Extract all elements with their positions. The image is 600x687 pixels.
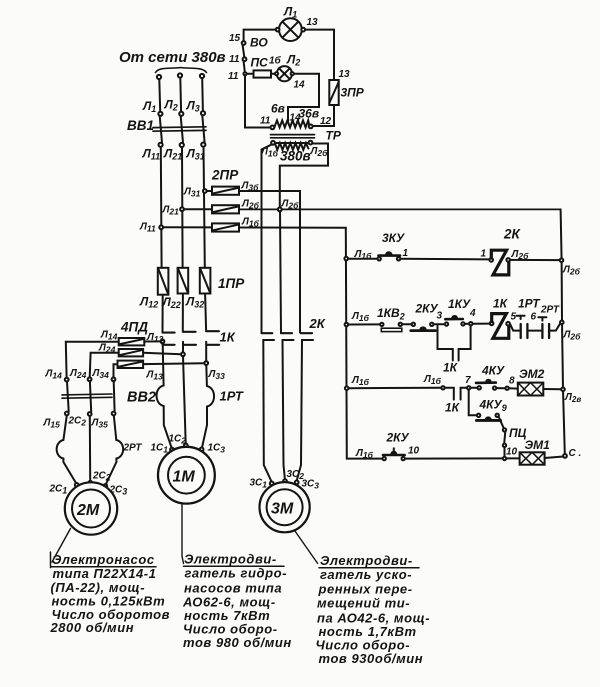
svg-text:1РТ: 1РТ bbox=[220, 389, 244, 404]
wire to 1C1 bbox=[164, 406, 172, 448]
wire to 1C3 bbox=[202, 407, 207, 448]
wire L11 to fuse 2PR-1 bbox=[163, 226, 212, 228]
svg-text:Электронасос: Электронасос bbox=[52, 552, 155, 567]
fuse 1PR-2 bbox=[178, 268, 189, 294]
switch VO bbox=[242, 41, 246, 45]
wire 4PD-2 right to tap bbox=[143, 353, 181, 355]
svg-text:1М: 1М bbox=[173, 469, 196, 486]
wire L1b transformer lead down bbox=[262, 144, 273, 332]
button 2KU row4 bbox=[383, 448, 405, 460]
wire 4PD-1 right to tap bbox=[144, 340, 160, 342]
svg-text:Л15: Л15 bbox=[43, 418, 61, 430]
terminal 3C3 bbox=[295, 481, 299, 485]
node L3 top terminal bbox=[200, 74, 204, 78]
svg-text:Л21: Л21 bbox=[162, 205, 180, 217]
fuse 1PR-1 bbox=[158, 268, 169, 295]
wire 3KU to coil 2K bbox=[400, 258, 489, 261]
svg-text:4ПД: 4ПД bbox=[120, 320, 148, 335]
svg-text:1С3: 1С3 bbox=[208, 443, 226, 455]
wire BB2-3 down bbox=[114, 415, 117, 440]
thermal contact 2RT bbox=[538, 317, 560, 338]
svg-text:ВВ1: ВВ1 bbox=[127, 118, 154, 133]
button 3KU bbox=[378, 251, 401, 260]
junction node L2b redraw bbox=[278, 208, 282, 212]
1K lower left: tap node, foot, wire down bbox=[161, 340, 165, 344]
svg-text:Л2б: Л2б bbox=[563, 330, 582, 342]
wire 4PD-2 left bbox=[90, 353, 119, 378]
terminal circle row3 bbox=[441, 386, 444, 389]
wire L32 fuse to 1K bbox=[205, 294, 206, 331]
svg-text:12: 12 bbox=[320, 116, 332, 127]
svg-text:От сети 380в: От сети 380в bbox=[119, 49, 226, 66]
fuse 4PD-3 bbox=[118, 361, 144, 368]
svg-text:мещений ти-: мещений ти- bbox=[317, 596, 410, 611]
wire fuse to lamp L2 bbox=[271, 73, 275, 75]
primary winding bbox=[275, 143, 309, 150]
wire phase L3 drop bbox=[201, 78, 204, 111]
terminal 11 bbox=[271, 126, 275, 130]
fuse 1PR-3 bbox=[200, 268, 211, 294]
wire 4PD-1 left bbox=[66, 342, 119, 378]
wire PTs to node10 bbox=[504, 447, 506, 457]
switch BB2 blade 2 bbox=[90, 381, 91, 412]
terminal 3C1 bbox=[270, 482, 274, 486]
svg-text:Л1б: Л1б bbox=[355, 448, 374, 460]
wire BB2-2 down to 2C2 bbox=[89, 416, 91, 481]
svg-text:36в: 36в bbox=[299, 107, 320, 121]
svg-text:1К: 1К bbox=[445, 401, 461, 415]
wire 4PD-3 right to tap bbox=[143, 362, 204, 365]
leader 2M to text bbox=[52, 529, 71, 563]
svg-text:2К: 2К bbox=[503, 227, 522, 242]
thermal element 2RT left bulge bbox=[57, 440, 64, 459]
terminal 2C2 bbox=[88, 481, 92, 485]
wire phase L1: BB1 to fuse 1PR bbox=[160, 147, 163, 268]
wire PS to fuse 1b bbox=[247, 73, 254, 75]
svg-text:6в: 6в bbox=[271, 102, 285, 116]
node L31 bbox=[201, 143, 205, 147]
svg-text:Л2б: Л2б bbox=[281, 199, 300, 211]
wire row L3b to corner bbox=[239, 191, 300, 333]
node right rail row3 bbox=[561, 388, 565, 392]
wire row L1b to control rail corner bbox=[239, 228, 382, 459]
svg-text:3ПР: 3ПР bbox=[341, 86, 365, 100]
svg-text:Л13: Л13 bbox=[146, 370, 164, 382]
svg-text:3С3: 3С3 bbox=[302, 479, 320, 491]
svg-text:тов 980 об/мин: тов 980 об/мин bbox=[183, 635, 292, 650]
thermal contact 1RT bbox=[510, 316, 542, 338]
svg-text:8: 8 bbox=[509, 376, 515, 387]
svg-text:2РТ: 2РТ bbox=[540, 305, 560, 316]
svg-text:3М: 3М bbox=[271, 501, 294, 518]
fuse 2PR-2 (L2b) bbox=[212, 205, 239, 213]
button 1KU bbox=[445, 315, 465, 326]
underline block 2 bbox=[184, 565, 285, 567]
switch BB2 bar bbox=[62, 393, 112, 396]
terminal 2C3 bbox=[103, 484, 107, 488]
wire lamp L1 left to VO bbox=[244, 30, 276, 41]
svg-text:1: 1 bbox=[481, 249, 487, 260]
svg-text:Л33: Л33 bbox=[208, 369, 226, 381]
node L21 bbox=[180, 143, 184, 147]
coil 2K bbox=[489, 250, 510, 275]
switch PS bbox=[244, 61, 245, 72]
row2 node at left rail bbox=[345, 323, 349, 327]
1K lower right: foot, tap node, wire down bbox=[206, 344, 219, 346]
node 7 bbox=[467, 386, 470, 389]
fuse 3PR bbox=[329, 80, 338, 105]
wire to 2C1 bbox=[63, 459, 76, 484]
svg-text:2С2: 2С2 bbox=[68, 416, 87, 428]
svg-text:типа П22Х14-1: типа П22Х14-1 bbox=[53, 566, 157, 581]
wire L31 to fuse 2PR-3 bbox=[207, 190, 212, 192]
foot of 2K contact upper right bbox=[301, 332, 312, 334]
svg-text:2К: 2К bbox=[309, 316, 326, 331]
motor 2M bbox=[65, 482, 117, 534]
svg-text:4: 4 bbox=[469, 308, 476, 319]
svg-text:2С2: 2С2 bbox=[92, 471, 111, 483]
switch BB1 blade 1 bbox=[160, 116, 162, 143]
wire 4KU9 to PTs bbox=[499, 417, 504, 429]
secondary winding bbox=[274, 120, 309, 127]
svg-text:11: 11 bbox=[260, 116, 271, 127]
svg-text:3С1: 3С1 bbox=[250, 478, 268, 490]
node L3 at BB1 bbox=[201, 111, 205, 115]
contact PTs bbox=[503, 428, 506, 447]
wire L21 to fuse 2PR-2 bbox=[184, 208, 212, 210]
row1 node at left rail bbox=[344, 257, 348, 261]
foot 1K upper right bbox=[206, 330, 219, 332]
svg-text:2КУ: 2КУ bbox=[386, 431, 410, 445]
svg-text:1К: 1К bbox=[220, 330, 236, 345]
coil 1K bbox=[490, 314, 510, 339]
svg-text:2РТ: 2РТ bbox=[123, 443, 143, 454]
wire 1KU to node4 bbox=[465, 323, 469, 325]
thermal element 2RT right bulge bbox=[116, 440, 123, 459]
node 10 bbox=[503, 457, 506, 460]
wire rail to terminal bbox=[349, 387, 442, 389]
contact 1K row3 (hanging break) bbox=[445, 388, 467, 400]
svg-text:2ПР: 2ПР bbox=[211, 168, 239, 183]
foot of 2K contact upper middle bbox=[281, 332, 292, 334]
wire node8 to EM2 bbox=[509, 387, 518, 389]
fuse 2PR-1 (L1b) bbox=[212, 223, 239, 231]
wire node7 down to 4KU9 bbox=[469, 390, 477, 416]
row3 node at left rail bbox=[345, 386, 349, 390]
switch BB1 blade 2 bbox=[181, 116, 183, 143]
svg-text:7: 7 bbox=[465, 375, 471, 386]
wire node4 to coil 1K bbox=[473, 323, 490, 325]
svg-text:13: 13 bbox=[307, 17, 319, 28]
wire L12 fuse to 1K bbox=[162, 295, 164, 332]
switch BB2 blade 3 bbox=[113, 381, 116, 411]
svg-text:3КУ: 3КУ bbox=[382, 231, 405, 245]
svg-text:13: 13 bbox=[339, 69, 351, 80]
wire L2b node down to 2K bbox=[280, 211, 281, 332]
svg-text:1ПР: 1ПР bbox=[218, 276, 245, 291]
svg-text:С .: С . bbox=[569, 448, 582, 459]
terminal 2C1 bbox=[75, 483, 79, 487]
text block 1: electric pump bbox=[50, 552, 171, 635]
node L11 bbox=[159, 143, 163, 147]
wire L22 fuse to 1K bbox=[182, 294, 184, 331]
svg-text:ЭМ2: ЭМ2 bbox=[519, 367, 545, 381]
wire phase L2: BB1 to fuse 1PR bbox=[181, 147, 184, 268]
switch BB2 top contacts bbox=[65, 378, 69, 382]
wire phase L3: BB1 to fuse 1PR bbox=[204, 147, 205, 268]
svg-text:гатель уско-: гатель уско- bbox=[320, 567, 412, 582]
wire phase L2 drop bbox=[179, 78, 182, 112]
motor 1M bbox=[158, 447, 215, 504]
underline block 3 bbox=[319, 567, 419, 569]
svg-text:гатель гидро-: гатель гидро- bbox=[185, 566, 287, 581]
svg-text:10: 10 bbox=[506, 447, 518, 458]
wire 2KU3 to 1KU bbox=[434, 323, 445, 325]
node 8 bbox=[505, 387, 508, 390]
svg-text:насосов типа: насосов типа bbox=[184, 581, 282, 596]
switch BB2 bottom contacts bbox=[65, 412, 69, 416]
fuse 1b bbox=[254, 70, 272, 77]
terminal 3C2 bbox=[283, 479, 287, 483]
svg-text:1КУ: 1КУ bbox=[448, 297, 471, 311]
node L11 row tap bbox=[159, 225, 163, 229]
svg-text:2800 об/мин: 2800 об/мин bbox=[50, 620, 135, 635]
wire PS node down to transformer 11 bbox=[245, 75, 270, 127]
node L2 top terminal bbox=[178, 73, 182, 77]
wire rail to button 3KU bbox=[348, 258, 377, 260]
svg-text:2М: 2М bbox=[76, 502, 100, 519]
tick block 1 bbox=[50, 552, 52, 568]
wire EM2 to right rail bbox=[543, 388, 561, 390]
svg-text:Электродви-: Электродви- bbox=[320, 553, 413, 568]
fuse 4PD-1 bbox=[119, 338, 145, 345]
svg-text:ТР: ТР bbox=[326, 129, 342, 143]
thermal element 1RT right bulge bbox=[207, 386, 214, 407]
terminal 12 bbox=[309, 125, 313, 129]
wire 2KU to EM1 bbox=[405, 457, 520, 459]
motor 3M bbox=[260, 482, 310, 532]
svg-text:Л1б: Л1б bbox=[351, 375, 370, 387]
wire lamp L1 right to fuse 3PR bbox=[305, 30, 334, 80]
svg-text:тов 930об/мин: тов 930об/мин bbox=[319, 651, 424, 666]
node right rail row2 bbox=[560, 321, 564, 325]
svg-text:Электродви-: Электродви- bbox=[184, 552, 277, 567]
svg-text:11: 11 bbox=[228, 71, 239, 82]
svg-text:ПС: ПС bbox=[251, 56, 269, 70]
holding bridge with 1K aux contact bbox=[438, 326, 453, 349]
switch BB1 blade 3 bbox=[202, 115, 204, 142]
button 4KU9 (NC) bbox=[476, 414, 500, 421]
svg-text:1б: 1б bbox=[269, 55, 282, 67]
node right rail row1 bbox=[560, 258, 564, 262]
svg-text:1К: 1К bbox=[443, 361, 459, 375]
svg-text:Л24: Л24 bbox=[69, 368, 87, 380]
text block 3: rapid traverse motor bbox=[316, 553, 431, 666]
terminal 1C3 bbox=[200, 448, 204, 452]
brace over supply bbox=[156, 68, 207, 73]
coil EM2 bbox=[518, 383, 544, 396]
svg-text:Л35: Л35 bbox=[91, 418, 109, 430]
node L31 row tap bbox=[203, 189, 207, 193]
foot 1K upper middle bbox=[183, 331, 196, 333]
1K lower middle: foot, tap node, wire down bbox=[183, 344, 196, 346]
terminal L2b bbox=[309, 141, 313, 145]
wire 4PD-3 left bbox=[114, 364, 118, 377]
coil EM1 bbox=[520, 452, 545, 464]
svg-text:11: 11 bbox=[229, 54, 240, 65]
fuse 4PD-2 bbox=[119, 349, 143, 356]
svg-text:Л14: Л14 bbox=[100, 330, 118, 342]
right rail L2b bbox=[561, 209, 565, 453]
svg-text:Л34: Л34 bbox=[92, 368, 110, 380]
node 4 bbox=[469, 322, 472, 325]
svg-text:14: 14 bbox=[294, 80, 306, 91]
svg-text:ренных пере-: ренных пере- bbox=[318, 582, 413, 597]
svg-text:1С1: 1С1 bbox=[151, 443, 169, 455]
wire BB2-1 down bbox=[63, 415, 66, 440]
fuse 2PR-3 (L3b) bbox=[212, 187, 239, 195]
svg-text:1: 1 bbox=[403, 248, 409, 259]
limit switch 1KV2 bbox=[380, 323, 402, 332]
svg-text:10: 10 bbox=[408, 446, 420, 457]
leader from 3M to text bbox=[295, 531, 318, 564]
lamp L2 bbox=[275, 66, 294, 81]
terminal 1C1 bbox=[170, 448, 174, 452]
svg-text:5: 5 bbox=[511, 312, 517, 323]
svg-text:Л14: Л14 bbox=[45, 369, 63, 381]
wire EM1 to rail end bbox=[545, 457, 564, 459]
wire L2b transformer lead down bbox=[280, 144, 328, 208]
switch BB1 bar bbox=[153, 126, 206, 129]
svg-text:4КУ: 4КУ bbox=[481, 364, 505, 378]
foot of 2K contact upper left bbox=[262, 332, 273, 334]
text block 2: hydraulic pump motor bbox=[182, 552, 292, 651]
leader 1M to text bbox=[182, 504, 184, 564]
svg-text:ВВ2: ВВ2 bbox=[127, 390, 156, 406]
svg-text:ВО: ВО bbox=[250, 36, 268, 50]
wire to 2C3 bbox=[106, 459, 116, 485]
svg-text:Л1б: Л1б bbox=[423, 374, 442, 386]
terminal 1C2 bbox=[184, 444, 188, 448]
2K lower left: foot and wire to 3M bbox=[263, 339, 274, 341]
svg-text:15: 15 bbox=[229, 33, 241, 44]
wire phase L1 drop bbox=[158, 79, 161, 112]
node L1 top terminal bbox=[157, 75, 161, 79]
node L2 at BB1 bbox=[179, 112, 183, 116]
node L1 at BB1 bbox=[158, 112, 162, 116]
core bbox=[271, 134, 315, 136]
wire coil 2K to right rail bbox=[510, 259, 560, 261]
svg-text:Л2б: Л2б bbox=[562, 265, 581, 277]
svg-text:2КУ: 2КУ bbox=[415, 302, 439, 316]
svg-text:1К: 1К bbox=[493, 297, 509, 311]
svg-text:3: 3 bbox=[437, 311, 443, 322]
svg-text:1РТ: 1РТ bbox=[518, 297, 541, 311]
wire rail to 1KV2 bbox=[348, 323, 380, 325]
underline block 1 bbox=[51, 566, 156, 568]
thermal element 1RT left bulge bbox=[157, 386, 164, 407]
svg-text:6: 6 bbox=[531, 312, 537, 323]
button 4KU bbox=[470, 379, 505, 390]
wire row L2b to right rail bbox=[239, 208, 561, 210]
button 2KU3 (NC) bbox=[411, 323, 436, 331]
svg-text:Л11: Л11 bbox=[139, 222, 156, 234]
lamp L1 bbox=[276, 18, 305, 41]
node L21 row tap bbox=[180, 207, 184, 211]
svg-text:Л2б: Л2б bbox=[310, 146, 329, 158]
svg-text:380в: 380в bbox=[280, 149, 311, 164]
2K lower right: foot and wire to 3M bbox=[302, 339, 313, 341]
svg-text:Л1б: Л1б bbox=[351, 311, 370, 323]
switch BB2 blade 1 bbox=[67, 382, 69, 412]
svg-text:Л31: Л31 bbox=[183, 187, 201, 199]
terminal L1b bbox=[271, 141, 275, 145]
transformer TR bbox=[271, 120, 315, 149]
wire lamp L2 to tap 14 bbox=[288, 74, 319, 123]
node rail end bbox=[563, 454, 567, 458]
foot 1K upper left bbox=[163, 332, 175, 334]
wire 1KV2 to 2KU3 bbox=[402, 323, 412, 325]
svg-text:2С1: 2С1 bbox=[49, 484, 68, 496]
wire 3PR to terminal 12 bbox=[313, 105, 334, 126]
2K lower middle: foot and wire to 3M bbox=[283, 339, 294, 341]
node L2b row bbox=[278, 208, 282, 212]
svg-text:ЭМ1: ЭМ1 bbox=[525, 438, 551, 452]
